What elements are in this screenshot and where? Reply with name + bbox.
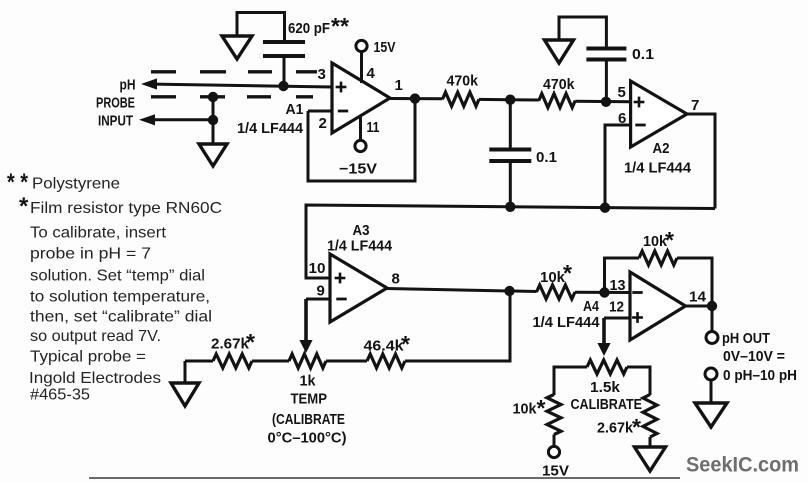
svg-text:SeekIC.com: SeekIC.com — [686, 453, 799, 477]
pin 12 label A4 — [609, 299, 624, 316]
A3 plus marker — [335, 273, 346, 284]
label 470k (second) — [543, 77, 575, 93]
label 620 pF — [288, 20, 330, 37]
label 2.67k (temp) — [211, 337, 250, 353]
svg-text:10: 10 — [309, 260, 326, 277]
ground A2 bypass — [545, 40, 574, 63]
svg-text:to solution temperature,: to solution temperature, — [30, 289, 210, 306]
wire 470k-1 to node — [479, 98, 539, 102]
junction on INPUT line — [208, 115, 218, 125]
ground CALIBRATE — [635, 447, 666, 471]
svg-text:**: ** — [331, 13, 349, 39]
svg-text:Polystyrene: Polystyrene — [32, 176, 120, 193]
wire A2 pin6 from rail — [605, 125, 631, 208]
wire A3 output — [387, 289, 537, 292]
wire 2.67k to ground — [649, 437, 652, 448]
op-amp U A4 — [630, 272, 686, 340]
wire A2 bypass top link — [559, 17, 606, 48]
label 1/4 LF444 (A1) — [237, 121, 303, 137]
label CALIBRATE — [571, 397, 643, 413]
wire pH input line (to A1 pin 3) — [146, 84, 332, 87]
label 0.1 (low-pass) — [536, 150, 557, 166]
junction A1 output — [410, 93, 420, 103]
op-amp U A2 — [631, 81, 687, 147]
pin 9 label A3 — [317, 283, 325, 300]
label pH OUT — [722, 331, 770, 347]
pin 3 label A1 — [318, 66, 326, 83]
wire A3 pin9 (inverting input) — [306, 299, 330, 341]
label * marker (notes) — [19, 193, 29, 220]
svg-text:0.1: 0.1 — [536, 150, 557, 166]
label A2 — [653, 140, 670, 157]
wire A4 feedback right — [677, 258, 712, 306]
svg-text:(CALIBRATE: (CALIBRATE — [272, 412, 345, 428]
pin 10 label A3 — [309, 260, 326, 277]
svg-text:10k: 10k — [513, 402, 538, 418]
wire temp row left — [185, 360, 213, 363]
svg-text:Typical probe =: Typical probe = — [30, 349, 146, 366]
svg-text:620 pF: 620 pF — [288, 20, 330, 37]
potentiometer 1k TEMP — [289, 354, 326, 368]
label (CALIBRATE — [272, 412, 345, 428]
label 15V (A1) — [374, 40, 396, 56]
svg-text:To calibrate, insert: To calibrate, insert — [30, 225, 167, 242]
junction A3 output node — [504, 286, 514, 296]
svg-text:2: 2 — [319, 115, 327, 132]
bottom page edge line — [89, 477, 680, 479]
resistor 10k* (A4 feedback) — [639, 251, 677, 265]
potentiometer 1.5k CALIBRATE — [587, 360, 627, 374]
label 470k (first) — [447, 74, 479, 90]
svg-text:* *: * * — [7, 169, 29, 196]
label 2.67k (calibrate) — [597, 421, 634, 437]
label 10k (series) — [540, 270, 566, 286]
capacitor 0.1 (low-pass) — [489, 150, 531, 162]
svg-text:*: * — [563, 260, 572, 286]
terminal 0 pH reference — [705, 368, 717, 380]
label 1/4 LF444 (A4) — [533, 315, 600, 331]
wire A4 output — [686, 305, 713, 308]
label 10k (feedback) — [643, 234, 668, 250]
svg-text:13: 13 — [610, 277, 626, 294]
wire A1 pin4 to +15V — [360, 51, 363, 83]
svg-text:46.4k: 46.4k — [364, 339, 405, 355]
pin 2 label A1 — [319, 115, 327, 132]
label ** (polystyrene mark) — [331, 13, 349, 39]
pin 13 label A4 — [610, 277, 626, 294]
svg-text:then, set “calibrate” dial: then, set “calibrate” dial — [30, 309, 212, 326]
svg-text:−15V: −15V — [339, 162, 377, 178]
label 0C-100C — [268, 431, 347, 447]
svg-text:A4: A4 — [583, 298, 600, 315]
wire A1 pin2 (inverting input) — [308, 110, 332, 113]
label 15V (bottom) — [542, 464, 569, 480]
capacitor 0.1 (A2 bypass) — [586, 49, 626, 60]
svg-text:8: 8 — [392, 271, 400, 288]
svg-text:0 pH–10 pH: 0 pH–10 pH — [723, 368, 797, 384]
wire 470k-2 to A2 pin 5 — [575, 100, 630, 104]
arrowhead pH line (points left) — [141, 78, 157, 89]
terminal +15V (A1 pin 4) — [356, 40, 367, 51]
resistor 2.67k* (temp) — [213, 354, 252, 368]
resistor 470k (first) — [443, 92, 480, 106]
svg-text:Ingold Electrodes: Ingold Electrodes — [29, 370, 161, 387]
svg-text:11: 11 — [367, 119, 380, 136]
svg-text:*: * — [246, 329, 255, 355]
wire 46.4k to A3 output node — [405, 291, 510, 361]
A4 minus marker — [632, 291, 642, 294]
junction 620pF / pH line — [278, 81, 288, 91]
wire A1 output — [390, 97, 443, 100]
wire 2.67k to 1k pot — [252, 360, 289, 363]
capacitor C 620pF (plates) — [263, 42, 305, 56]
wire A2 bypass cap to pin5 node — [605, 61, 608, 102]
A1 plus marker — [336, 82, 347, 93]
wire shield/input drop to ground — [212, 95, 215, 145]
svg-text:0.1: 0.1 — [632, 47, 654, 63]
pin 6 label A2 — [618, 110, 626, 127]
label * (feedback 10k) — [665, 227, 674, 253]
svg-text:so output read 7V.: so output read 7V. — [30, 328, 161, 345]
svg-text:1.5k: 1.5k — [590, 380, 621, 396]
junction low-pass node 1 — [505, 95, 515, 105]
label * (temp 2.67k) — [246, 329, 255, 355]
svg-text:A1: A1 — [286, 101, 304, 118]
A1 minus marker — [338, 110, 348, 113]
svg-text:12: 12 — [609, 299, 624, 316]
svg-text:*: * — [665, 227, 674, 253]
svg-text:#465-35: #465-35 — [30, 387, 90, 404]
wire A2 output feedback to rail — [687, 114, 715, 209]
resistor 46.4k* — [367, 354, 405, 368]
label 46.4k — [364, 339, 405, 355]
watermark SeekIC.com — [686, 453, 799, 477]
terminal -15V (A1 pin 11) — [355, 140, 366, 151]
svg-text:3: 3 — [318, 66, 326, 83]
wire A4 feedback — [605, 258, 640, 293]
svg-text:*: * — [537, 395, 546, 421]
svg-text:0°C–100°C): 0°C–100°C) — [268, 431, 347, 447]
resistor 470k (second) — [539, 94, 575, 108]
svg-text:1/4 LF444: 1/4 LF444 — [327, 239, 392, 255]
label 1k — [300, 374, 317, 390]
ground TEMP row — [171, 383, 199, 406]
wire 620pF bottom to pH line — [283, 57, 286, 86]
op-amp U A1 — [332, 63, 390, 133]
svg-text:pH: pH — [120, 78, 136, 94]
svg-text:9: 9 — [317, 283, 325, 300]
arrowhead A3 pin9 to TEMP pot wiper — [299, 340, 312, 353]
A2 minus marker — [635, 124, 645, 127]
pin 11 label A1 — [367, 119, 380, 136]
ground probe input — [199, 144, 227, 166]
label * (46.4k) — [401, 331, 410, 357]
svg-text:A2: A2 — [653, 140, 670, 157]
wire INPUT line — [144, 118, 213, 121]
wire 0.1 cap to rail — [509, 162, 512, 207]
label 0V-10V = — [723, 349, 785, 365]
label 0.1 (A2 bypass) — [632, 47, 654, 63]
terminal 15V (bottom) — [548, 446, 559, 457]
notes text block — [29, 176, 222, 404]
label TEMP — [291, 392, 328, 408]
svg-text:1: 1 — [395, 77, 403, 94]
svg-text:14: 14 — [689, 289, 707, 306]
svg-text:solution. Set “temp” dial: solution. Set “temp” dial — [30, 268, 205, 285]
svg-text:*: * — [19, 193, 29, 220]
svg-text:2.67k: 2.67k — [597, 421, 634, 437]
wire rail to A3 pin 10 — [306, 205, 715, 278]
junction A4 pin13 node — [599, 287, 609, 297]
wire 10k to 15V terminal — [553, 435, 556, 448]
arrowhead A4 pin12 to pot wiper — [597, 343, 610, 356]
label * (series 10k) — [563, 260, 572, 286]
wire 1k pot to 46.4k — [326, 360, 367, 363]
svg-text:*: * — [632, 414, 641, 440]
label 1/4 LF444 (A3) — [327, 239, 392, 255]
pin 14 label A4 — [689, 289, 707, 306]
A2 plus marker — [634, 97, 645, 108]
svg-text:7: 7 — [691, 97, 699, 114]
pin 8 label A3 — [392, 271, 400, 288]
svg-text:0V–10V =: 0V–10V = — [723, 349, 785, 365]
svg-text:4: 4 — [367, 65, 376, 82]
wire 10k to A4 pin13 — [575, 291, 630, 294]
label -15V — [339, 162, 377, 178]
junction A2 pin 5 node — [601, 97, 611, 107]
svg-text:Film resistor type RN60C: Film resistor type RN60C — [30, 200, 222, 217]
svg-text:1k: 1k — [300, 374, 317, 390]
label * (15V leg 10k) — [537, 395, 546, 421]
pin 5 label A2 — [618, 84, 626, 101]
op-amp U A3 — [330, 254, 387, 322]
svg-text:*: * — [401, 331, 410, 357]
wire A1 pin11 to -15V — [359, 117, 362, 141]
label 1.5k — [590, 380, 621, 396]
A3 minus marker — [336, 298, 346, 301]
A4 plus marker — [632, 312, 643, 323]
svg-text:1/4 LF444: 1/4 LF444 — [533, 315, 600, 331]
svg-text:1/4 LF444: 1/4 LF444 — [237, 121, 303, 137]
svg-text:TEMP: TEMP — [291, 392, 328, 408]
svg-text:A3: A3 — [353, 222, 370, 239]
wire A4 pin12 to CALIBRATE pot wiper — [604, 318, 630, 343]
resistor 10k* (to 15V) — [547, 395, 561, 435]
label 1/4 LF444 (A2) — [624, 161, 691, 177]
junction rail / 0.1 cap — [505, 202, 515, 212]
svg-text:5: 5 — [618, 84, 626, 101]
ground pH OUT reference — [695, 403, 727, 427]
wire temp ground drop — [184, 361, 187, 384]
arrowhead INPUT line (points left) — [139, 114, 155, 125]
wire 1.5k pot top span — [554, 367, 587, 395]
label A4 — [583, 298, 600, 315]
svg-text:probe in pH = 7: probe in pH = 7 — [30, 246, 151, 263]
label 10k (15V leg) — [513, 402, 538, 418]
svg-text:CALIBRATE: CALIBRATE — [571, 397, 643, 413]
resistor 10k* (A3 to A4) — [537, 285, 576, 299]
cable shield dash row (lower) — [151, 95, 313, 98]
wire 0 pH terminal to ground — [710, 380, 713, 404]
label pH — [120, 78, 136, 94]
wire A1 feedback loop — [308, 99, 415, 181]
junction on shield row — [208, 92, 218, 102]
pin 4 label A1 — [367, 65, 376, 82]
svg-text:470k: 470k — [543, 77, 575, 93]
label 0 pH-10 pH — [723, 368, 797, 384]
svg-text:PROBE: PROBE — [96, 96, 135, 112]
svg-text:1/4 LF444: 1/4 LF444 — [624, 161, 691, 177]
label A3 — [353, 222, 370, 239]
terminal pH OUT — [706, 332, 718, 344]
label PROBE — [96, 96, 135, 112]
svg-text:pH OUT: pH OUT — [722, 331, 770, 347]
wire 1.5k pot right corner — [627, 367, 650, 395]
label A1 — [286, 101, 304, 118]
svg-text:2.67k: 2.67k — [211, 337, 250, 353]
pin 1 label A1 — [395, 77, 403, 94]
svg-text:15V: 15V — [374, 40, 396, 56]
label * (calibrate 2.67k) — [632, 414, 641, 440]
wire output to terminal — [711, 306, 714, 332]
wire node1 to 0.1 cap — [509, 100, 512, 148]
svg-text:INPUT: INPUT — [98, 114, 133, 130]
svg-text:470k: 470k — [447, 74, 479, 90]
cable shield dash row (upper) — [151, 70, 317, 73]
pin 7 label A2 — [691, 97, 699, 114]
junction A2 pin6 / rail — [600, 203, 610, 213]
label INPUT — [98, 114, 133, 130]
label ** marker (notes) — [7, 169, 29, 196]
ground 620pF — [222, 36, 252, 59]
wire 620pF top link — [237, 13, 285, 42]
junction A4 output — [707, 301, 717, 311]
resistor 2.67k* (calibrate) — [643, 395, 657, 438]
